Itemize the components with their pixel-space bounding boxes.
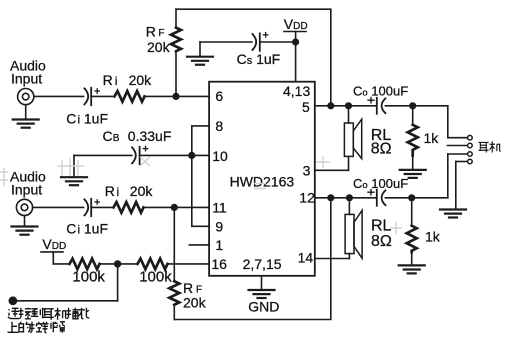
resistor R1 100k (70, 259, 100, 270)
capacitor CB 0.33uF (132, 147, 136, 163)
node Ri2 / bias junction (172, 205, 178, 211)
node CB / pin8 / pin9 bus (189, 153, 195, 159)
wire bottom feedback rail (174, 198, 330, 320)
wire pin 12 output row (315, 197, 377, 199)
wire pin 14 row (315, 258, 350, 260)
node control junction (115, 261, 121, 267)
wire pin 8 (192, 125, 209, 127)
wire ground to CB (74, 154, 132, 156)
svg-text:9: 9 (215, 218, 223, 234)
svg-text:4,13: 4,13 (283, 83, 310, 99)
wire pin 9 (192, 225, 209, 227)
svg-text:1: 1 (215, 237, 223, 253)
resistor R4 1k vertical (411, 198, 413, 226)
wire Cs to VDD node (260, 41, 296, 43)
svg-text:14: 14 (298, 250, 314, 266)
svg-text:Co 100uF: Co 100uF (353, 176, 408, 191)
wire to pin 16 (168, 263, 210, 265)
wire Cs to ground (200, 41, 252, 43)
svg-text:20k: 20k (147, 39, 171, 55)
resistor RF2 20k vertical (169, 264, 179, 320)
wire to phone jack ring (448, 153, 468, 155)
wire CB to pin 10 (140, 154, 210, 156)
svg-text:RL: RL (371, 217, 392, 234)
IC U1 HWD2163 body (209, 82, 315, 276)
svg-text:6: 6 (215, 88, 223, 104)
wire Ci1 to Ri1 (91, 95, 114, 97)
svg-text:1k: 1k (425, 228, 441, 244)
svg-text:Cs 1uF: Cs 1uF (237, 51, 281, 67)
capacitor CB 0.33uF ground (73, 155, 75, 177)
svg-text:Input: Input (11, 71, 42, 87)
svg-text:Ci1uF: Ci1uF (66, 221, 108, 237)
ground below J1 (25, 105, 27, 120)
ground below J2 (24, 216, 26, 227)
svg-text:100k: 100k (72, 269, 105, 286)
svg-text:Ri20k: Ri20k (105, 183, 154, 199)
svg-text:8: 8 (215, 118, 223, 134)
audio input jack J1 (18, 89, 34, 105)
ground phone jack (440, 208, 466, 210)
svg-text:11: 11 (212, 199, 227, 215)
wire 100k junction (100, 263, 138, 265)
svg-text:20k: 20k (183, 295, 207, 311)
svg-text:Ci1uF: Ci1uF (66, 111, 108, 127)
watermark traces (0, 156, 402, 234)
wire Ri1 to pin 6 (145, 95, 210, 97)
node VDD / Cs junction (293, 39, 299, 45)
speaker RL1 (348, 106, 350, 123)
ground under R4 (399, 264, 425, 266)
svg-text:12: 12 (299, 190, 315, 206)
svg-text:GND: GND (248, 299, 279, 315)
svg-text:10: 10 (212, 148, 228, 164)
capacitor Ci2 1uF (84, 199, 88, 215)
svg-text:Input: Input (11, 182, 42, 198)
wire top feedback rail (176, 9, 331, 106)
resistor R3 1k vertical (412, 106, 414, 125)
ground for Cs (187, 56, 213, 58)
capacitor Cs 1uF (252, 34, 256, 50)
wire Ri2 to pin 11 (144, 206, 210, 208)
wire pin 3 row (315, 169, 349, 171)
audio input jack J2 (16, 199, 32, 215)
svg-text:16: 16 (211, 256, 227, 272)
ground GND under IC (261, 276, 263, 290)
resistor Ri1 20k horizontal (115, 91, 145, 102)
node control terminal dot (9, 297, 16, 304)
speaker RL2 (348, 198, 350, 215)
text 耳机 headphone label (479, 142, 501, 153)
wire pin 5 output row (315, 105, 377, 107)
wire Co1 to 1k and jack (385, 105, 447, 107)
capacitor Co1 100uF (376, 98, 378, 114)
wire J2 to Ci2 (33, 206, 84, 208)
wire Ci2 to Ri2 (91, 206, 113, 208)
wire phone jack sleeve to ground (456, 161, 468, 163)
svg-text:8Ω: 8Ω (371, 141, 392, 158)
power VDD2 rail (41, 251, 63, 253)
wire J1 to Ci1 (34, 95, 84, 97)
svg-text:3: 3 (303, 162, 311, 178)
wire bus pins 8-9 (191, 126, 193, 226)
phone jack contacts (468, 135, 473, 140)
wire control line (13, 300, 118, 302)
power VDD1 rail (284, 31, 306, 33)
svg-text:2,7,15: 2,7,15 (243, 256, 282, 272)
pin 1 stub (189, 244, 209, 246)
svg-text:HWD2163: HWD2163 (230, 173, 295, 189)
svg-text:1k: 1k (424, 130, 440, 146)
resistor RF1 20k vertical (171, 9, 181, 96)
svg-text:100k: 100k (139, 269, 172, 286)
capacitor Co2 100uF (376, 190, 378, 206)
wire to phone jack tip (447, 106, 449, 138)
resistor Ri2 20k horizontal (114, 202, 144, 213)
text 连接到耳机插孔 control note line 1 (8, 308, 89, 320)
phone jack switch stub (448, 145, 468, 147)
text 上的控制端 control note line 2 (8, 322, 66, 333)
wire bias vertical to pin16 row (173, 207, 175, 264)
capacitor Ci1 1uF (84, 88, 88, 104)
svg-text:Co 100uF: Co 100uF (353, 84, 408, 99)
ground under R3 (400, 169, 426, 171)
svg-text:5: 5 (302, 99, 310, 115)
resistor R2 100k (138, 259, 168, 270)
node junction Ri1/RF1 to pin6 (173, 94, 179, 100)
wire Co2 to 1k and jack (385, 197, 447, 199)
svg-text:8Ω: 8Ω (371, 233, 392, 250)
